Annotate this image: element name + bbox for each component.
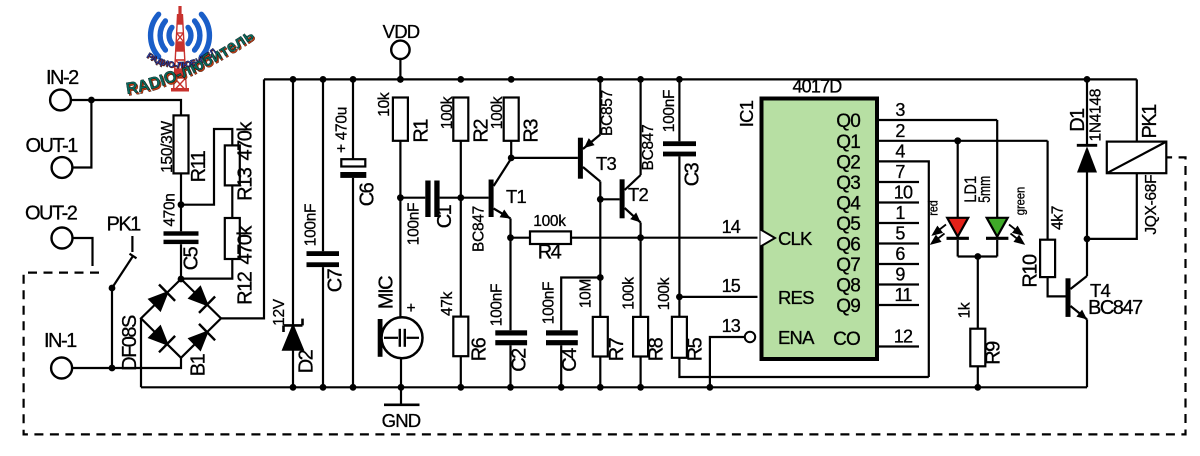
capacitor C1 100nF bbox=[400, 197, 425, 199]
svg-text:T2: T2 bbox=[628, 184, 649, 205]
capacitor C7 100nF bbox=[320, 76, 327, 83]
terminal OUT-1 bbox=[52, 157, 73, 178]
svg-text:100k: 100k bbox=[656, 277, 673, 310]
wire T3 collector down to R7 bbox=[599, 199, 601, 317]
wire R2 down through base node to R6 bbox=[460, 141, 462, 317]
svg-text:C7: C7 bbox=[324, 268, 346, 292]
svg-text:4: 4 bbox=[895, 141, 905, 161]
pin labels Q0-Q9 and CO bbox=[833, 111, 861, 350]
logo RADIO-любитель bbox=[0, 0, 259, 100]
svg-text:IN-2: IN-2 bbox=[46, 67, 79, 89]
wire bridge right corner to VDD rail bbox=[221, 79, 264, 318]
svg-text:+: + bbox=[407, 300, 416, 317]
wire T1 collector to T3 base bbox=[511, 157, 578, 159]
bridge rectifier B1 DF08S bbox=[141, 279, 221, 358]
svg-text:10: 10 bbox=[894, 183, 913, 203]
op IC1 4017D counter bbox=[762, 99, 878, 360]
bridge diode T-R bbox=[190, 287, 207, 304]
svg-text:IC1: IC1 bbox=[736, 100, 757, 127]
svg-text:OUT-2: OUT-2 bbox=[25, 203, 78, 225]
svg-text:C5: C5 bbox=[180, 246, 202, 270]
svg-text:R8: R8 bbox=[645, 337, 667, 361]
svg-text:5: 5 bbox=[895, 224, 905, 244]
LED red light arrows bbox=[932, 225, 946, 244]
svg-text:CO: CO bbox=[833, 329, 860, 350]
svg-text:C2: C2 bbox=[508, 348, 530, 372]
resistor R4 100k horizontal bbox=[511, 237, 531, 239]
wire R4 to CLK (row 14) bbox=[571, 237, 758, 239]
svg-text:+ 470u: + 470u bbox=[334, 107, 351, 153]
svg-text:Q4: Q4 bbox=[836, 194, 861, 215]
node D1/relay/T4 collector bbox=[1084, 236, 1091, 243]
svg-text:C1: C1 bbox=[434, 204, 456, 228]
svg-text:1N4148: 1N4148 bbox=[1088, 89, 1105, 142]
bridge diode L-B bbox=[150, 327, 167, 344]
resistor R6 47k bbox=[453, 317, 468, 357]
svg-text:PK1: PK1 bbox=[107, 214, 142, 236]
svg-text:D1: D1 bbox=[1067, 108, 1089, 132]
svg-text:R9: R9 bbox=[982, 341, 1004, 365]
svg-text:R3: R3 bbox=[520, 119, 542, 143]
resistor R9 1k bbox=[977, 257, 979, 330]
wire LED common cathode bbox=[958, 255, 998, 257]
svg-text:R10: R10 bbox=[1019, 254, 1041, 288]
svg-text:150/3W: 150/3W bbox=[159, 121, 176, 173]
svg-text:12V: 12V bbox=[271, 298, 288, 326]
logo blue arcs left bbox=[151, 14, 210, 56]
node T3 collector / T2 base bbox=[597, 196, 604, 203]
bridge diode L-T bbox=[150, 293, 167, 310]
svg-text:R6: R6 bbox=[468, 337, 490, 361]
svg-text:4017D: 4017D bbox=[792, 77, 842, 97]
wire node to C4 bbox=[561, 278, 600, 331]
svg-text:100k: 100k bbox=[533, 213, 566, 230]
svg-text:10M: 10M bbox=[578, 279, 595, 308]
svg-text:13: 13 bbox=[722, 316, 741, 336]
ground GND symbol bbox=[400, 387, 402, 405]
svg-text:R1: R1 bbox=[410, 119, 432, 143]
svg-text:Q7: Q7 bbox=[836, 255, 860, 276]
wire R5 bottom to Q2 column bbox=[679, 358, 928, 377]
wire bridge left corner to GND rail bbox=[140, 318, 142, 387]
GND rail (bottom) bbox=[141, 386, 1087, 388]
node A below R11 bbox=[178, 201, 185, 208]
pin numbers right bbox=[894, 100, 913, 347]
svg-text:47k: 47k bbox=[439, 291, 456, 316]
svg-text:red: red bbox=[926, 200, 940, 216]
VDD rail (top) bbox=[264, 78, 1137, 80]
svg-text:100nF: 100nF bbox=[661, 90, 678, 132]
svg-text:BC857: BC857 bbox=[599, 90, 616, 136]
svg-text:T1: T1 bbox=[506, 186, 527, 207]
svg-text:VDD: VDD bbox=[383, 21, 420, 42]
svg-text:R12 470k: R12 470k bbox=[234, 225, 256, 305]
wire R13 to R12 bbox=[231, 185, 233, 218]
svg-text:6: 6 bbox=[895, 244, 905, 264]
terminal OUT-2 bbox=[52, 228, 73, 249]
dashed mains border bbox=[24, 157, 1186, 434]
svg-text:7: 7 bbox=[895, 162, 905, 182]
resistor R8 100k bbox=[633, 317, 648, 357]
svg-text:R5: R5 bbox=[684, 337, 706, 361]
svg-text:2: 2 bbox=[895, 121, 905, 141]
wire T2 emitter down to R8 bbox=[639, 238, 641, 317]
svg-text:4k7: 4k7 bbox=[1050, 206, 1067, 230]
svg-text:BC847: BC847 bbox=[640, 125, 657, 171]
resistor R1 10k bbox=[397, 76, 404, 83]
svg-text:RES: RES bbox=[778, 287, 814, 308]
svg-text:CLK: CLK bbox=[778, 228, 813, 249]
svg-text:Q9: Q9 bbox=[836, 296, 860, 317]
svg-text:Q1: Q1 bbox=[836, 132, 860, 153]
logo antenna tower bbox=[174, 14, 187, 91]
transistor T1 BC847 bbox=[489, 180, 494, 218]
resistor R2 100k bbox=[457, 76, 464, 83]
svg-text:OUT-1: OUT-1 bbox=[26, 135, 79, 157]
node IN-2/OUT-1 junction bbox=[88, 97, 95, 104]
svg-text:DF08S: DF08S bbox=[119, 315, 141, 371]
capacitor C6 470u electrolytic bbox=[350, 76, 357, 83]
svg-text:MIC: MIC bbox=[375, 276, 397, 309]
svg-text:5mm: 5mm bbox=[975, 176, 994, 203]
svg-text:1: 1 bbox=[895, 203, 905, 223]
resistor R12 470k bbox=[225, 218, 240, 259]
capacitor C3 100nF bbox=[676, 76, 683, 83]
transistor T3 BC857 pnp bbox=[578, 138, 583, 179]
svg-text:T3: T3 bbox=[596, 153, 617, 174]
svg-text:R13 470k: R13 470k bbox=[234, 121, 256, 201]
node IN-1 junction bbox=[109, 365, 116, 372]
wire IN-2 to R11 bbox=[71, 100, 181, 115]
resistor R13 470k bbox=[225, 145, 240, 185]
svg-text:ENA: ENA bbox=[778, 327, 815, 348]
terminal IN-1 bbox=[51, 358, 72, 379]
pin CLK chevron bbox=[761, 230, 776, 247]
wire node A to R13 bbox=[181, 129, 232, 205]
svg-text:Q2: Q2 bbox=[836, 152, 860, 173]
svg-text:Q8: Q8 bbox=[836, 276, 860, 297]
wire R12 to bridge top node bbox=[181, 259, 232, 279]
svg-text:Q0: Q0 bbox=[836, 111, 860, 132]
svg-text:R11: R11 bbox=[188, 150, 210, 182]
svg-text:Q6: Q6 bbox=[836, 235, 860, 256]
svg-text:15: 15 bbox=[722, 276, 741, 296]
wire OUT-2 stub bbox=[73, 238, 93, 266]
pin ENA bubble bbox=[745, 332, 755, 342]
transistor T2 BC847 bbox=[620, 179, 625, 218]
svg-text:100nF: 100nF bbox=[541, 282, 558, 324]
wire R11 to node A bbox=[180, 173, 182, 231]
bridge diode B-R bbox=[190, 332, 207, 349]
svg-text:100k: 100k bbox=[489, 96, 506, 129]
svg-text:Q5: Q5 bbox=[836, 214, 860, 235]
capacitor C2 100nF bbox=[509, 238, 511, 331]
svg-text:BC847: BC847 bbox=[471, 206, 488, 252]
wire C1 to T1 base bbox=[440, 197, 489, 199]
node R1/MIC/C1 bbox=[397, 194, 404, 201]
svg-text:12: 12 bbox=[894, 327, 913, 347]
wire IN-1 to bridge bbox=[72, 358, 181, 368]
svg-text:100nF: 100nF bbox=[303, 204, 320, 246]
resistor R7 10M bbox=[593, 317, 608, 357]
relay PK1 JQX-68F coil bbox=[1136, 79, 1138, 141]
svg-text:R7: R7 bbox=[606, 337, 628, 361]
svg-text:11: 11 bbox=[894, 285, 912, 305]
node T1 collector bbox=[508, 155, 515, 162]
terminal IN-2 bbox=[50, 90, 71, 111]
svg-text:C3: C3 bbox=[681, 162, 703, 186]
svg-text:100k: 100k bbox=[621, 277, 638, 310]
node Q1 wire junction bbox=[954, 137, 961, 144]
LED LD1 red bbox=[954, 137, 961, 144]
svg-text:100k: 100k bbox=[439, 96, 456, 129]
pin stubs right bbox=[879, 120, 1048, 377]
svg-text:14: 14 bbox=[722, 217, 741, 237]
capacitor C5 470n bbox=[164, 231, 199, 235]
wire C5 to bridge bbox=[180, 244, 182, 279]
svg-text:1k: 1k bbox=[957, 302, 974, 318]
zener D2 12V bbox=[290, 76, 297, 83]
svg-text:green: green bbox=[1013, 187, 1027, 216]
svg-text:R4: R4 bbox=[538, 242, 562, 264]
resistor R11 150/3W bbox=[174, 115, 189, 173]
diode D1 1N4148 bbox=[1084, 76, 1091, 83]
node RES / R5 top bbox=[676, 294, 683, 301]
wire T1 emitter down bbox=[509, 219, 511, 238]
transistor T4 BC847 bbox=[1066, 278, 1071, 317]
svg-text:B1: B1 bbox=[187, 353, 209, 376]
svg-text:9: 9 bbox=[895, 265, 905, 285]
wire junction to OUT-1 bbox=[73, 100, 92, 168]
microphone MIC bbox=[399, 198, 401, 319]
logo blue arcs right bbox=[201, 14, 209, 56]
svg-text:C6: C6 bbox=[356, 182, 378, 206]
wire RES row 15 bbox=[679, 296, 757, 298]
wire ENA to ground bbox=[710, 337, 745, 387]
wire switch to IN-1 bbox=[111, 288, 113, 368]
LED green light arrows bbox=[1009, 225, 1023, 244]
svg-text:3: 3 bbox=[895, 100, 905, 120]
svg-text:100nF: 100nF bbox=[406, 203, 423, 245]
svg-text:PK1: PK1 bbox=[1139, 104, 1161, 139]
node bridge top bbox=[178, 276, 185, 283]
svg-text:JQX-68F: JQX-68F bbox=[1143, 175, 1160, 235]
svg-text:IN-1: IN-1 bbox=[44, 330, 77, 352]
svg-text:GND: GND bbox=[382, 410, 421, 431]
resistor R3 100k bbox=[508, 76, 515, 83]
svg-text:470n: 470n bbox=[162, 193, 179, 226]
svg-text:100nF: 100nF bbox=[489, 284, 506, 326]
svg-text:Q3: Q3 bbox=[836, 173, 860, 194]
resistor R10 4k7 bbox=[1046, 141, 1048, 240]
svg-text:10k: 10k bbox=[376, 92, 393, 117]
svg-text:C4: C4 bbox=[559, 348, 581, 372]
capacitor C4 100nF bbox=[546, 330, 578, 335]
LED LD1 green bbox=[996, 120, 998, 218]
resistor R5 100k bbox=[672, 317, 687, 358]
svg-text:D2: D2 bbox=[295, 349, 317, 373]
svg-text:BC847: BC847 bbox=[1088, 297, 1143, 319]
